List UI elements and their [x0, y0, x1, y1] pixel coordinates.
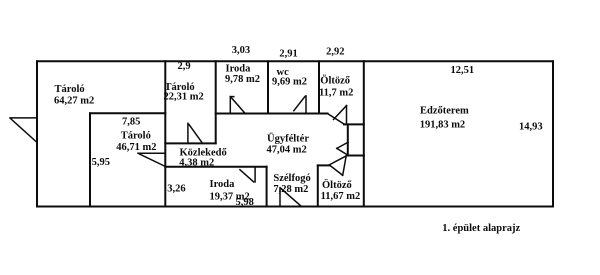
svg-text:Iroda: Iroda — [210, 179, 236, 190]
wall: small room bottom — [348, 155, 364, 157]
svg-text:Szélfogó: Szélfogó — [273, 173, 310, 184]
door: exterior left, swing — [11, 119, 37, 143]
svg-text:2,92: 2,92 — [326, 47, 344, 58]
svg-text:7,85: 7,85 — [122, 117, 140, 128]
svg-text:2,91: 2,91 — [279, 49, 297, 60]
door: Iroda 19,37, leaf — [254, 168, 256, 182]
door: Tarolo 22,31, leaf — [187, 123, 189, 143]
svg-text:12,51: 12,51 — [451, 65, 475, 76]
wall: Tarolo 46,71 left — [89, 113, 91, 206]
door: Iroda 9,78, swing — [231, 97, 245, 113]
svg-text:191,83 m2: 191,83 m2 — [420, 120, 466, 131]
door: small room, swing upper — [337, 142, 348, 148]
door: Tarolo 46,71, leaf — [138, 152, 165, 154]
svg-text:Iroda: Iroda — [226, 64, 252, 75]
svg-text:2,9: 2,9 — [178, 61, 191, 72]
svg-text:Tároló: Tároló — [121, 131, 151, 142]
wall: Tarolo 46,71 top — [90, 112, 165, 114]
svg-text:9,69 m2: 9,69 m2 — [272, 77, 307, 88]
wall: Tarolo 22,31 bottom — [165, 142, 215, 144]
wall: Iroda 19,37 / Szelfogo divider — [266, 167, 268, 207]
svg-text:4,38 m2: 4,38 m2 — [179, 157, 214, 168]
svg-text:22,31 m2: 22,31 m2 — [164, 92, 204, 103]
svg-text:9,78 m2: 9,78 m2 — [225, 74, 260, 85]
door: Oltozo 11,67, swing b — [343, 156, 347, 175]
door: Tarolo 22,31, swing — [189, 125, 202, 144]
wall: Iroda / wc divider — [267, 61, 269, 113]
svg-text:7,28 m2: 7,28 m2 — [273, 184, 308, 195]
wall: wc / Oltozo divider — [318, 61, 320, 113]
door: exterior left, leaf — [10, 117, 37, 119]
wall: small room left — [347, 124, 349, 155]
door: small room, swing lower — [337, 148, 348, 155]
svg-text:46,71 m2: 46,71 m2 — [116, 142, 156, 153]
wall: Tarolo 22,31 right — [215, 61, 217, 143]
door: Iroda 9,78, leaf — [229, 97, 231, 114]
door: Szelfogo entrance, leaf — [279, 188, 281, 207]
door: wc, leaf — [305, 96, 307, 114]
door: Oltozo 11,7, swing edge — [346, 106, 348, 125]
svg-text:Öltöző: Öltöző — [322, 178, 352, 191]
svg-text:Öltöző: Öltöző — [320, 74, 350, 87]
wall: Iroda + wc bottom — [216, 113, 328, 115]
wall: Edzoterem left — [363, 61, 365, 206]
svg-text:3,03: 3,03 — [232, 45, 250, 56]
door: Iroda 19,37, swing — [240, 170, 254, 182]
svg-text:Ügyféltér: Ügyféltér — [267, 132, 309, 145]
svg-text:64,27 m2: 64,27 m2 — [54, 96, 94, 107]
door: Iroda 9,78, tick — [230, 96, 234, 98]
svg-text:47,04 m2: 47,04 m2 — [267, 145, 307, 156]
wall: exterior left — [36, 61, 38, 206]
door: Oltozo 11,7, leaf — [328, 114, 345, 125]
svg-text:5,95: 5,95 — [92, 157, 110, 168]
wall: exterior bottom — [37, 206, 553, 208]
wall: Oltozo 11,7 bottom — [344, 123, 364, 125]
wall: Oltozo 11,67 top left part — [318, 164, 329, 166]
svg-text:3,26: 3,26 — [167, 184, 185, 195]
door: wc, swing — [294, 97, 305, 111]
door: Oltozo 11,7, swing hyp — [334, 106, 347, 120]
wall: Kozlekedo + Iroda 19,37 top — [165, 166, 266, 168]
svg-text:11,67 m2: 11,67 m2 — [321, 191, 361, 202]
door: Tarolo 46,71, swing — [140, 154, 166, 166]
wall: Tarolo 22,31 left / central spine — [164, 61, 166, 206]
door: Oltozo 11,67, swing a — [329, 165, 343, 175]
svg-text:Tároló: Tároló — [55, 84, 85, 95]
svg-text:Edzőterem: Edzőterem — [420, 106, 469, 117]
svg-text:14,93: 14,93 — [519, 122, 543, 133]
svg-text:5,98: 5,98 — [236, 197, 254, 208]
svg-text:11,7 m2: 11,7 m2 — [319, 88, 353, 99]
wall: Szelfogo / Oltozo lower divider — [317, 165, 319, 206]
wall: exterior top — [37, 60, 553, 62]
wall: exterior right — [552, 61, 554, 206]
svg-text:1. épület alaprajz: 1. épület alaprajz — [442, 223, 520, 234]
door: Oltozo 11,67, leaf — [329, 156, 346, 165]
door: Szelfogo entrance, swing — [281, 189, 301, 207]
